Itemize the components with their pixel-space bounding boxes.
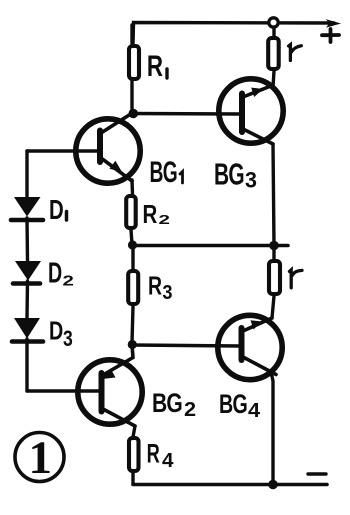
svg-text:D: D	[49, 194, 64, 225]
svg-text:BG: BG	[150, 156, 178, 189]
wire R3 leads	[132, 246, 133, 343]
plus label	[322, 29, 339, 42]
wire node A to BG3 base	[132, 112, 240, 116]
label r lower	[290, 270, 303, 288]
svg-text:R: R	[147, 50, 163, 83]
resistor R3	[128, 271, 138, 304]
svg-text:3: 3	[63, 326, 73, 351]
wire D2-D3	[25, 281, 29, 318]
resistor r (upper)	[268, 38, 279, 69]
resistor R1	[129, 46, 139, 79]
wire BG1 emitter to R2	[130, 180, 134, 194]
transistor BG2	[78, 345, 142, 426]
svg-text:BG: BG	[214, 157, 244, 192]
diode D1	[11, 197, 43, 220]
svg-text:R: R	[148, 271, 162, 301]
wire R1 leads	[130, 25, 133, 111]
svg-text:2: 2	[184, 399, 196, 421]
wire r upper leads	[273, 27, 274, 87]
svg-text:R: R	[143, 199, 158, 229]
svg-text:BG: BG	[152, 388, 182, 418]
wire top rail (+)	[133, 23, 334, 45]
wire BG2 base lead	[27, 389, 101, 392]
svg-text:2: 2	[159, 213, 171, 227]
node C junction dot	[269, 241, 279, 251]
transistor BG3	[219, 79, 283, 144]
wire bottom rail (-)	[133, 483, 327, 487]
node open circle top	[269, 18, 278, 27]
resistor R2	[126, 196, 136, 228]
svg-text:D: D	[48, 258, 62, 290]
wire BG2 collector to R4	[133, 426, 135, 437]
arrow top-right supply	[326, 19, 341, 27]
wire BG1 base lead	[27, 149, 100, 152]
resistor r (lower)	[269, 261, 280, 294]
svg-text:3: 3	[162, 282, 172, 304]
wire R2 bottom lead	[131, 230, 132, 244]
wire diode chain top	[25, 151, 28, 197]
svg-text:R: R	[147, 439, 160, 469]
wire r2 leads	[272, 246, 274, 318]
svg-text:3: 3	[245, 168, 257, 193]
node E junction dot	[268, 480, 278, 490]
node A junction dot	[129, 109, 139, 119]
diode D2	[13, 261, 41, 284]
diode D3	[12, 318, 43, 342]
transistor BG1	[76, 113, 140, 184]
wire R4 to bottom rail	[131, 473, 134, 484]
svg-text:1: 1	[29, 432, 53, 484]
wire BG4 collector to bottom rail	[271, 372, 273, 484]
minus label	[308, 472, 326, 475]
resistor R4	[129, 438, 139, 471]
label r upper	[289, 45, 302, 61]
figure number circled 1	[15, 432, 64, 484]
wire D1-D2	[25, 218, 29, 261]
wire middle horizontal	[132, 244, 288, 248]
svg-text:D: D	[49, 316, 63, 346]
svg-text:2: 2	[63, 273, 74, 290]
node D junction dot	[128, 340, 137, 349]
wire node D to BG4 base	[132, 345, 240, 346]
node B junction dot	[128, 240, 137, 249]
wire BG3 collector down to node C	[273, 144, 274, 245]
svg-text:BG: BG	[219, 389, 247, 419]
wire D3 to BG2 base	[25, 339, 28, 391]
transistor BG4	[218, 315, 282, 379]
